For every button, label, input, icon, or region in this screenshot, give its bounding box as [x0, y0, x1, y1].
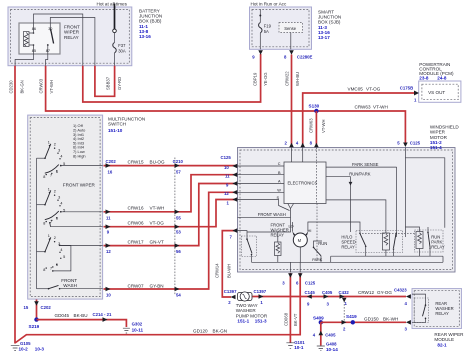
front wiper relay label [64, 25, 80, 40]
mechanical link dashed [359, 233, 415, 235]
svg-text:FRONT WASH: FRONT WASH [258, 212, 286, 217]
svg-text:7: 7 [50, 267, 52, 271]
rear washer relay label [435, 301, 453, 316]
windshield wiper motor box [238, 148, 456, 273]
svg-text:GD150: GD150 [364, 316, 379, 321]
wire GD045 BK-BU to G302 [37, 312, 127, 327]
rotary switch 2 [37, 187, 103, 226]
svg-text:23-8: 23-8 [419, 76, 429, 81]
svg-text:VMC05: VMC05 [348, 87, 364, 92]
svg-text:24-8: 24-8 [437, 76, 447, 81]
svg-text:M: M [298, 238, 302, 243]
svg-text:VS OUT: VS OUT [428, 90, 445, 95]
svg-text:15: 15 [24, 305, 29, 310]
PCM label [419, 62, 454, 81]
svg-text:4: 4 [60, 154, 62, 158]
ground G105 [11, 341, 45, 351]
svg-text:C202: C202 [41, 305, 52, 310]
svg-text:C1397: C1397 [224, 289, 237, 294]
svg-text:10: 10 [106, 293, 111, 298]
svg-text:VT-OG: VT-OG [150, 220, 165, 225]
svg-text:10-11: 10-11 [132, 328, 144, 333]
svg-text:Hot in Run or Acc: Hot in Run or Acc [251, 2, 287, 7]
wire CRW22 WH-BU [291, 55, 293, 147]
svg-text:WASH: WASH [63, 283, 77, 288]
front wash line [238, 204, 294, 233]
svg-text:2: 2 [54, 143, 56, 147]
MF switch common bus [36, 158, 38, 289]
svg-text:8: 8 [43, 268, 45, 272]
svg-text:151-10: 151-10 [108, 128, 123, 133]
svg-text:C125: C125 [305, 280, 316, 285]
svg-text:2: 2 [54, 236, 56, 240]
motor pin 5 arrow C125 [403, 143, 408, 148]
wire CRW17 GN-VT [104, 184, 238, 255]
wire CRW63 VT-WH S130 to motor pin 8 [315, 111, 317, 147]
svg-text:C125: C125 [410, 141, 421, 146]
svg-text:5: 5 [63, 162, 65, 166]
run park switch [312, 241, 327, 262]
svg-text:PARK SENSE: PARK SENSE [352, 162, 379, 167]
SJB pin 8 arrow / C2280E [289, 50, 294, 55]
splice S409 [313, 315, 324, 324]
BJB internal wiring pin 87 [46, 45, 48, 66]
powertrain control module PCM [419, 81, 461, 102]
svg-text:10: 10 [224, 165, 229, 170]
svg-text:3: 3 [58, 195, 60, 199]
svg-text:BU-WH: BU-WH [227, 264, 232, 278]
svg-text:C175B: C175B [400, 86, 413, 91]
MF switch position legend [73, 123, 86, 158]
front washer relay [238, 222, 289, 262]
svg-text:Sense: Sense [284, 26, 297, 31]
svg-text:151-1: 151-1 [237, 318, 249, 323]
FRONT WASH label (switch) [61, 278, 77, 288]
MF switch ground pin 15 to S219 [24, 300, 52, 320]
motor top pin stubs into electronics [292, 148, 303, 163]
motor pin 5 power distribution [405, 148, 444, 238]
svg-text:GD045: GD045 [55, 313, 70, 318]
svg-text:Hot at all times: Hot at all times [97, 2, 128, 7]
svg-text:10-3: 10-3 [35, 346, 45, 351]
SJB label [318, 10, 341, 40]
relay coil [24, 32, 30, 47]
svg-text:C2280E: C2280E [297, 54, 313, 59]
wire CRW12 GY-OG to rear wiper module [305, 288, 411, 307]
wire CRW03 VT-WH from relay 87 [46, 66, 406, 144]
svg-text:82-1: 82-1 [437, 343, 447, 348]
svg-text:ELECTRONICS: ELECTRONICS [288, 181, 318, 186]
rear wiper module box [412, 289, 462, 329]
svg-text:RELAY: RELAY [435, 311, 449, 316]
svg-text:VT-WH: VT-WH [373, 105, 388, 110]
svg-text:F37: F37 [118, 43, 126, 48]
wire VMC05 VT-OG to PCM [303, 93, 414, 147]
svg-text:GN-VT: GN-VT [150, 239, 164, 244]
svg-text:WH-BU: WH-BU [295, 72, 300, 86]
rotary switch 3 [37, 234, 103, 272]
splice S130 [314, 109, 318, 113]
svg-text:C432: C432 [339, 290, 350, 295]
wire SBB37 GY-RD fuse loop [95, 66, 115, 97]
svg-text:RELAY: RELAY [341, 245, 355, 250]
wire CRW14 BU-WH motor pin7 to pump [215, 228, 238, 304]
svg-text:G105: G105 [20, 341, 31, 346]
svg-text:7: 7 [50, 174, 52, 178]
rear washer relay internals [412, 294, 429, 322]
svg-text:11: 11 [106, 216, 111, 221]
svg-text:53: 53 [176, 230, 181, 235]
svg-text:151-3: 151-3 [255, 318, 267, 323]
svg-text:57: 57 [176, 170, 181, 175]
BJB internal wiring pin 85 [15, 45, 33, 66]
rear wiper module label [434, 332, 464, 348]
park sense line [326, 162, 397, 237]
svg-text:BK-VT: BK-VT [293, 313, 298, 326]
svg-text:10-2: 10-2 [19, 346, 29, 351]
svg-text:GY-BN: GY-BN [150, 284, 164, 289]
electronics box [284, 162, 326, 204]
fuse F37 30A [113, 33, 126, 66]
svg-text:56: 56 [176, 249, 181, 254]
svg-text:55: 55 [176, 216, 181, 221]
svg-text:5: 5 [63, 255, 65, 259]
wire pump pin1 to rear washer line [253, 289, 407, 305]
svg-text:G101: G101 [294, 340, 305, 345]
svg-text:W: W [277, 189, 281, 193]
wiper motor M [289, 222, 323, 262]
svg-text:4: 4 [60, 201, 62, 205]
svg-text:8: 8 [43, 222, 45, 226]
connector C210 dashed line [174, 158, 176, 296]
svg-text:2: 2 [54, 190, 56, 194]
SJB pin 9 arrow [258, 50, 263, 55]
internal lower bus lines [252, 256, 444, 272]
svg-text:1: 1 [48, 234, 50, 238]
svg-text:CRW15: CRW15 [128, 159, 144, 164]
svg-text:10-1: 10-1 [294, 345, 304, 350]
svg-text:CRW63: CRW63 [355, 105, 371, 110]
inline connector C432 dashed link [342, 298, 347, 322]
BJB internal wiring pin 30 [50, 18, 95, 66]
ground G302 [123, 322, 144, 334]
wire CD068 BK-VT motor pin3 to G101 [282, 273, 298, 343]
svg-text:VT-WH: VT-WH [49, 80, 54, 94]
svg-text:85: 85 [32, 49, 36, 53]
motor top pin arrows 2 4 8 [289, 143, 294, 148]
svg-text:S219: S219 [29, 324, 40, 329]
svg-text:CRW14: CRW14 [215, 263, 220, 278]
svg-text:SBB37: SBB37 [106, 76, 111, 90]
front wiper relay K (in BJB) [19, 23, 60, 54]
svg-text:G302: G302 [132, 322, 143, 327]
svg-text:GD120: GD120 [193, 328, 208, 333]
wire CRW07 GY-BN front wash [104, 192, 238, 297]
svg-text:FRONT WIPER: FRONT WIPER [63, 183, 96, 188]
motor input rows C B A W S [238, 162, 290, 210]
svg-text:CRW07: CRW07 [128, 284, 144, 289]
multifunction switch box [28, 115, 103, 299]
svg-text:C405: C405 [325, 333, 336, 338]
BJB internal wiring pin 86 [34, 14, 83, 66]
svg-text:C145: C145 [305, 290, 316, 295]
relay contact 30-87 [51, 31, 54, 44]
BJB label [139, 9, 162, 39]
svg-text:VT-WH: VT-WH [321, 120, 326, 134]
fuse F19 5A (in SJB) [259, 9, 272, 49]
windshield wiper motor label [430, 125, 460, 150]
svg-text:S409: S409 [313, 315, 324, 320]
ground G408 [317, 341, 338, 351]
wire CD230 BK-GN to G105 [14, 66, 16, 344]
svg-text:C: C [278, 162, 281, 166]
svg-text:GY-OG: GY-OG [377, 290, 392, 295]
svg-text:GY-RD: GY-RD [117, 77, 122, 90]
svg-text:YE-OG: YE-OG [263, 73, 268, 87]
svg-text:BK-GN: BK-GN [20, 80, 25, 93]
svg-text:C125: C125 [221, 155, 232, 160]
wire CBP19 YE-OG relay coil feed [83, 54, 261, 102]
ground G101 [286, 340, 305, 350]
sense box (in SJB) [279, 23, 303, 50]
svg-text:54: 54 [176, 293, 181, 298]
svg-text:86: 86 [32, 27, 36, 31]
svg-text:5A: 5A [264, 29, 269, 34]
svg-text:G408: G408 [326, 341, 337, 346]
svg-text:C202: C202 [106, 159, 117, 164]
smart junction box SJB [250, 7, 312, 49]
svg-text:30A: 30A [118, 48, 126, 53]
svg-text:CRW22: CRW22 [285, 71, 290, 86]
svg-text:10-14: 10-14 [326, 347, 338, 351]
svg-text:1: 1 [48, 187, 50, 191]
svg-text:CBP19: CBP19 [253, 72, 258, 86]
svg-text:RELAY: RELAY [271, 232, 285, 237]
splice S219 [34, 317, 38, 321]
svg-text:CRW03: CRW03 [39, 78, 44, 93]
svg-text:CRW63: CRW63 [309, 118, 314, 133]
wire CRW06 VT-OG [104, 200, 238, 235]
two way washer pump motor [236, 292, 268, 324]
multifunction switch label [108, 117, 145, 133]
motor connector C125 left edge arrows [221, 155, 238, 205]
svg-text:C405: C405 [322, 290, 333, 295]
svg-text:CRW17: CRW17 [128, 239, 144, 244]
svg-text:4: 4 [60, 248, 62, 252]
svg-text:11: 11 [225, 174, 230, 179]
run park relay [405, 227, 444, 256]
wire S409 to G408 [313, 322, 336, 345]
svg-text:S419: S419 [346, 314, 357, 319]
hi/lo speed relay [322, 200, 403, 256]
run/park line [326, 171, 371, 232]
svg-text:SWITCH: SWITCH [108, 122, 126, 127]
svg-text:BK-GN: BK-GN [213, 328, 228, 333]
svg-text:BK-WH: BK-WH [383, 316, 398, 321]
svg-text:CRW16: CRW16 [128, 206, 144, 211]
rotary switch 1 [37, 140, 103, 179]
svg-text:CRW06: CRW06 [128, 220, 144, 225]
svg-text:12: 12 [224, 191, 229, 196]
svg-text:F19: F19 [264, 24, 272, 29]
svg-text:RUN/PARK: RUN/PARK [349, 171, 371, 176]
svg-text:8) High: 8) High [73, 153, 86, 158]
svg-text:VT-WH: VT-WH [150, 206, 165, 211]
svg-text:8: 8 [43, 175, 45, 179]
front wash switch [37, 285, 103, 289]
svg-text:BK-BU: BK-BU [74, 313, 88, 318]
wire CRW15 BU-OG [104, 159, 238, 175]
wire GD120 BK-GN motor pin6 to G105 [15, 273, 316, 343]
svg-text:3: 3 [58, 148, 60, 152]
svg-text:MODULE: MODULE [434, 337, 454, 342]
wire GD150 BK-WH S409 to rear module [321, 314, 411, 332]
svg-text:16: 16 [108, 170, 113, 175]
svg-text:VT-OG: VT-OG [366, 87, 381, 92]
svg-text:12: 12 [106, 249, 111, 254]
battery junction box BJB [8, 7, 132, 66]
svg-text:CD068: CD068 [284, 312, 289, 326]
svg-text:151-4: 151-4 [430, 145, 442, 150]
svg-text:C1397: C1397 [254, 289, 267, 294]
svg-text:RUN: RUN [318, 241, 327, 246]
svg-text:S130: S130 [309, 104, 320, 109]
svg-text:RELAY: RELAY [64, 35, 79, 40]
svg-text:C214 - 21: C214 - 21 [93, 312, 112, 317]
svg-text:CRW12: CRW12 [358, 290, 374, 295]
hot at all times feed [114, 4, 116, 29]
wire CRW16 VT-WH [104, 175, 238, 221]
svg-text:BU-OG: BU-OG [150, 159, 165, 164]
svg-text:13-16: 13-16 [139, 34, 151, 39]
svg-text:1: 1 [48, 140, 50, 144]
svg-text:13-17: 13-17 [318, 35, 330, 40]
svg-text:C210: C210 [173, 159, 184, 164]
svg-text:C4323: C4323 [394, 288, 407, 293]
svg-text:CD230: CD230 [9, 80, 14, 94]
